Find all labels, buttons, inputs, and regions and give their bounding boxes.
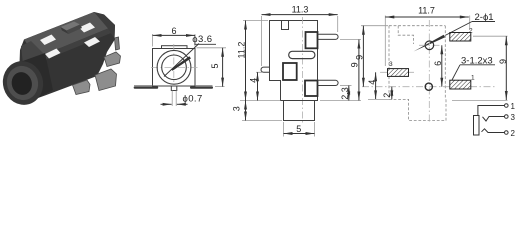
top view drawing xyxy=(231,5,361,137)
dim 11.3 line xyxy=(262,14,338,16)
svg-text:4: 4 xyxy=(367,80,377,85)
dim 5 extension lines xyxy=(197,47,227,49)
hole centerline bottom xyxy=(362,86,497,88)
pad 1 (right) hatched xyxy=(450,80,471,89)
svg-text:ϕ3.6: ϕ3.6 xyxy=(192,34,212,45)
2-phi1 leader xyxy=(445,22,472,36)
pin left xyxy=(261,67,269,72)
pin leader lines xyxy=(171,91,173,107)
terminal 3 circle xyxy=(505,115,509,119)
left ext line bottom xyxy=(240,100,281,102)
left leg bar xyxy=(134,86,159,88)
dim 11.2 line xyxy=(245,21,247,101)
bottom pin xyxy=(171,86,177,91)
svg-text:1: 1 xyxy=(471,75,475,82)
white hole front-right xyxy=(84,37,100,47)
svg-text:9: 9 xyxy=(498,59,508,64)
phi3.6 underline xyxy=(194,43,216,45)
barrel bottom edge line xyxy=(284,100,315,102)
hole centerline top xyxy=(419,44,440,46)
inner circle xyxy=(162,55,187,80)
SMD leg upper right xyxy=(104,52,121,67)
top face front edge highlight xyxy=(37,29,111,63)
pin upper right xyxy=(318,34,339,39)
dim 11.7 line xyxy=(385,16,469,18)
white hole front-left xyxy=(45,49,61,59)
wire pin3 with contact xyxy=(483,117,505,122)
bottom ext line right xyxy=(452,99,508,101)
svg-text:3: 3 xyxy=(511,113,516,122)
3-1.2x3 underline xyxy=(460,64,495,66)
svg-text:5: 5 xyxy=(296,124,301,134)
circle crosshair vertical xyxy=(173,44,175,84)
2-phi1 underline xyxy=(472,21,495,23)
svg-text:11.2: 11.2 xyxy=(237,42,247,59)
raised tab left face xyxy=(61,27,69,34)
dim 2.3 line xyxy=(348,86,350,101)
PCB land pattern drawing xyxy=(355,6,508,125)
body top face xyxy=(24,12,108,58)
3-1.2x3 leader xyxy=(452,65,460,80)
pad lower right xyxy=(305,81,318,97)
dim 2 line xyxy=(391,87,393,100)
svg-text:3: 3 xyxy=(389,61,393,68)
leader phi3.6 xyxy=(164,44,199,77)
dim 6 line between holes xyxy=(441,45,443,86)
pad centerline left xyxy=(380,71,416,73)
svg-text:3: 3 xyxy=(231,106,241,111)
body left end face xyxy=(21,41,47,64)
dim 3 line xyxy=(245,101,247,121)
svg-text:11.3: 11.3 xyxy=(292,5,309,15)
svg-text:6: 6 xyxy=(171,26,176,36)
rear pin right xyxy=(115,37,120,50)
left ext line pin xyxy=(256,71,262,73)
pin lower right xyxy=(318,80,339,85)
right leg bar xyxy=(190,86,213,88)
dim 9 line xyxy=(358,40,360,101)
right ext line pin bottom xyxy=(340,85,352,87)
phi0.7 arrows xyxy=(161,103,172,105)
white hole back-left xyxy=(40,35,56,46)
pad 2 (top right) hatched xyxy=(450,33,471,42)
top-left notch xyxy=(282,21,289,30)
svg-text:ϕ0.7: ϕ0.7 xyxy=(183,94,203,105)
terminal 2 circle xyxy=(505,131,509,135)
dim 4 line xyxy=(375,72,377,99)
wire pin1 to sleeve xyxy=(478,106,505,116)
svg-text:9: 9 xyxy=(350,62,360,67)
left leg line xyxy=(134,85,153,87)
front view drawing xyxy=(134,26,226,106)
outline top edge xyxy=(389,25,445,27)
svg-text:11.7: 11.7 xyxy=(418,6,435,16)
svg-text:5: 5 xyxy=(210,63,220,68)
SMD leg bottom middle xyxy=(73,80,91,95)
circle crosshair horizontal xyxy=(151,66,198,68)
svg-text:9: 9 xyxy=(355,55,365,60)
hole top xyxy=(425,41,434,50)
hole bottom xyxy=(425,83,432,90)
outline bottom edge with tab xyxy=(389,99,446,120)
bottom ext line left xyxy=(368,98,389,100)
vertical centerline xyxy=(428,20,430,124)
raised tab top face xyxy=(61,22,81,31)
dim 6 extension lines xyxy=(152,34,154,47)
stadium slot xyxy=(289,51,315,58)
dim 4 line left xyxy=(257,72,259,100)
svg-text:2: 2 xyxy=(382,93,392,98)
outline inner step xyxy=(398,26,413,44)
left dim 9 line xyxy=(362,26,364,87)
top tab xyxy=(162,46,188,49)
barrel cylinder side xyxy=(20,53,53,102)
dim 5 extension lines xyxy=(283,122,285,137)
SMD leg lower right xyxy=(95,69,117,91)
barrel face ring xyxy=(3,62,42,104)
centerline vertical xyxy=(302,17,304,124)
svg-text:2.3: 2.3 xyxy=(340,87,350,100)
left dim 9 ext top xyxy=(361,25,388,27)
barrel face outer xyxy=(0,56,48,109)
dim 11.3 extension lines xyxy=(261,16,263,66)
right leg line xyxy=(195,85,213,87)
sleeve contact rectangle xyxy=(474,116,480,136)
white hole back-right xyxy=(79,23,95,33)
photo of 3.5mm SMD jack (3D view) xyxy=(0,12,120,110)
svg-text:6: 6 xyxy=(433,61,443,66)
pad upper right xyxy=(306,32,318,48)
right ext line pin top xyxy=(340,39,361,41)
outer circle xyxy=(157,50,191,84)
switch schematic xyxy=(474,102,516,138)
dim 11.7 ext lines xyxy=(384,16,386,67)
dim 5 line xyxy=(284,133,315,135)
raised tab front face xyxy=(67,25,83,35)
dim 6 line xyxy=(153,34,196,36)
body silhouette xyxy=(19,12,115,101)
right ext line pad2 xyxy=(473,35,508,37)
body outline xyxy=(270,21,318,121)
body square xyxy=(153,49,196,87)
dim 5 line xyxy=(222,48,224,87)
outline right edge xyxy=(444,26,446,100)
leader phi3.6 arrow xyxy=(171,56,191,71)
wire pin2 with contact xyxy=(482,129,505,133)
barrel hole xyxy=(9,70,35,98)
left ext line top xyxy=(243,20,268,22)
outline left edge xyxy=(389,26,446,121)
svg-text:1: 1 xyxy=(511,102,516,111)
right ext line body bottom xyxy=(320,100,361,102)
body right face xyxy=(94,12,115,38)
terminal 1 circle xyxy=(505,104,509,108)
svg-text:4: 4 xyxy=(249,78,259,83)
pad 3 (left) hatched xyxy=(388,69,409,77)
right dim 9 line xyxy=(505,36,507,100)
left ext line barrel bottom xyxy=(242,120,282,122)
svg-text:2: 2 xyxy=(511,129,516,138)
pad middle left xyxy=(283,63,297,80)
2-phi1 leader arrow xyxy=(414,35,446,52)
svg-text:2: 2 xyxy=(469,28,473,35)
